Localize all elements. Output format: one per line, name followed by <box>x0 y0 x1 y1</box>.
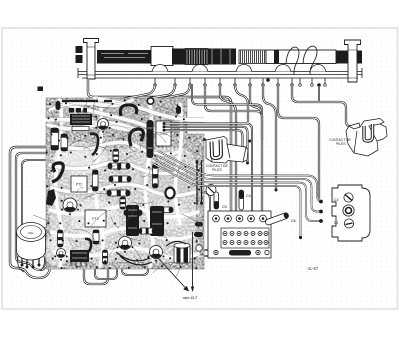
output transformer T2 <box>126 205 139 236</box>
chassis rails <box>78 72 362 79</box>
trimmer capacitor <box>206 185 216 196</box>
battery contact right <box>346 119 387 157</box>
svg-text:C4: C4 <box>246 194 251 198</box>
resistor R2 <box>109 176 131 182</box>
resistor R3 <box>107 190 130 196</box>
label ES-28 <box>69 108 74 113</box>
leader arrows to see #17 <box>158 258 187 290</box>
printed circuit board <box>46 98 204 269</box>
capacitor C7 <box>229 250 251 256</box>
resistor R15 <box>153 164 159 188</box>
capacitor C20 <box>139 228 155 234</box>
ferrite rod antenna L1 <box>97 50 152 64</box>
battery contact left <box>203 137 248 164</box>
fine board wiring <box>33 96 204 278</box>
wire bundle board to jack <box>158 151 322 202</box>
jack screw bottom <box>344 219 353 228</box>
dark hook wire <box>84 239 91 253</box>
antenna lead wire loops <box>286 46 317 75</box>
svg-text:4L-67: 4L-67 <box>308 266 319 271</box>
wire band 2 <box>164 127 248 162</box>
capacitor C6 diagonal <box>265 212 290 226</box>
resistor R4 <box>124 210 142 216</box>
terminal post 1 <box>213 215 220 222</box>
capacitor C17 <box>93 170 99 191</box>
wires terminal board to pcb <box>204 250 230 256</box>
svg-text:C6: C6 <box>291 219 296 223</box>
terminal post 5 <box>260 215 267 222</box>
svg-text:C1: C1 <box>334 221 338 225</box>
bold wire curl 1 <box>120 105 136 116</box>
left mounting bracket <box>84 39 99 80</box>
wire nested corner inner <box>192 84 262 114</box>
svg-text:see #17: see #17 <box>183 295 198 300</box>
resistor R8 <box>120 197 126 209</box>
wire lug to board <box>150 84 175 98</box>
svg-text:C5: C5 <box>222 205 227 209</box>
resistor R10 <box>58 230 64 247</box>
small clip top-left outside board <box>38 87 44 92</box>
small capacitor top band <box>56 101 61 110</box>
transistor Q1 <box>98 119 109 130</box>
terminal post 4 <box>248 215 255 222</box>
solder junction dots <box>49 103 51 105</box>
small trimmer ring <box>147 98 153 104</box>
mounting clips under rod <box>152 65 168 72</box>
wire to terminal board 2 <box>220 84 236 217</box>
terminal post 2 <box>225 215 232 222</box>
electrolytic C12 <box>51 128 59 150</box>
antenna coil winding 1 <box>185 49 208 65</box>
wire to jack area <box>263 84 276 190</box>
transistor Q5 <box>57 249 66 258</box>
capacitor C5 vertical <box>214 192 219 209</box>
ferrite rod bare section <box>266 50 336 64</box>
capacitor C19 <box>93 230 99 244</box>
wire arcs bottom <box>116 252 152 265</box>
wire lug down right corner <box>205 84 262 217</box>
svg-text:PILES: PILES <box>212 168 222 172</box>
terminal strip inner block <box>221 228 269 248</box>
earphone jack block J1 <box>332 185 370 241</box>
capacitor C4 vertical <box>239 190 244 210</box>
wire from left bracket to terminal board <box>88 80 231 217</box>
electrolytic can C21 <box>174 244 190 263</box>
wire left side outer <box>10 147 52 272</box>
wire band 3 <box>164 130 243 148</box>
electrolytic ring C19 <box>165 188 174 199</box>
jack bushing middle <box>343 205 354 216</box>
jack screw top <box>344 193 353 202</box>
wire lug to board mid <box>160 84 190 99</box>
wire band 1 to terminal <box>164 124 252 218</box>
resistor R1 <box>108 163 130 169</box>
wire lug short <box>250 84 262 140</box>
transistor Q2 <box>63 198 77 212</box>
board top edge tick labels <box>62 100 112 102</box>
coil form white sleeve <box>151 47 173 66</box>
transformer PT3 <box>85 210 106 227</box>
rod right dark end <box>336 51 362 64</box>
curved jumper wire <box>90 134 98 155</box>
transformer PT2 <box>71 176 87 192</box>
wire left side third <box>22 160 46 250</box>
svg-text:PT2: PT2 <box>76 183 83 187</box>
bracket screws left <box>76 46 83 53</box>
oscillator coil OSC <box>156 121 171 146</box>
resistor R6 <box>113 149 119 162</box>
small capacitors bottom right <box>194 232 203 237</box>
svg-text:PILES: PILES <box>336 142 346 146</box>
driver transformer T3 <box>150 206 164 236</box>
wire loop below board 3 <box>122 268 148 275</box>
wire long to right battery contact <box>292 84 352 127</box>
capacitor C13 <box>61 134 68 151</box>
wire lug stub down <box>318 86 320 101</box>
board tonal patches <box>43 100 200 266</box>
svg-text:M2L: M2L <box>28 231 34 235</box>
terminal board TB1 <box>208 211 271 258</box>
electrolytic can bottom-left <box>17 242 46 260</box>
resistor R5 <box>151 207 173 213</box>
capacitor C23 <box>103 250 108 264</box>
transistor Q4 <box>150 246 163 259</box>
svg-text:C2: C2 <box>334 198 338 202</box>
bold wire curl 2 <box>130 129 144 146</box>
bold wire curl 3 <box>52 163 63 182</box>
wire loop below board 1 <box>84 268 108 284</box>
can base pins <box>22 258 39 266</box>
wire loop around can 2 <box>30 244 46 270</box>
wire loop below board 2 <box>95 268 117 279</box>
terminal post 3 <box>236 215 243 222</box>
right mounting bracket <box>345 40 361 82</box>
wire lug down mid-right <box>235 84 248 122</box>
wire lug to board <box>112 84 155 99</box>
solder lug terminals under rails <box>155 78 325 84</box>
electrolytic C18 <box>46 189 56 206</box>
transistor Q3 <box>119 237 132 250</box>
wire pair right column <box>197 160 202 205</box>
antenna coil winding 2 <box>239 50 266 64</box>
wire left side inner <box>16 153 52 264</box>
IF transformer T1 <box>70 114 92 125</box>
electrolytic C14 <box>147 120 154 158</box>
wire board to terminal post 1 <box>204 192 210 215</box>
transformer T4 <box>70 250 89 262</box>
wire loop around can <box>26 228 50 278</box>
wire right long to jack stub <box>278 84 319 199</box>
